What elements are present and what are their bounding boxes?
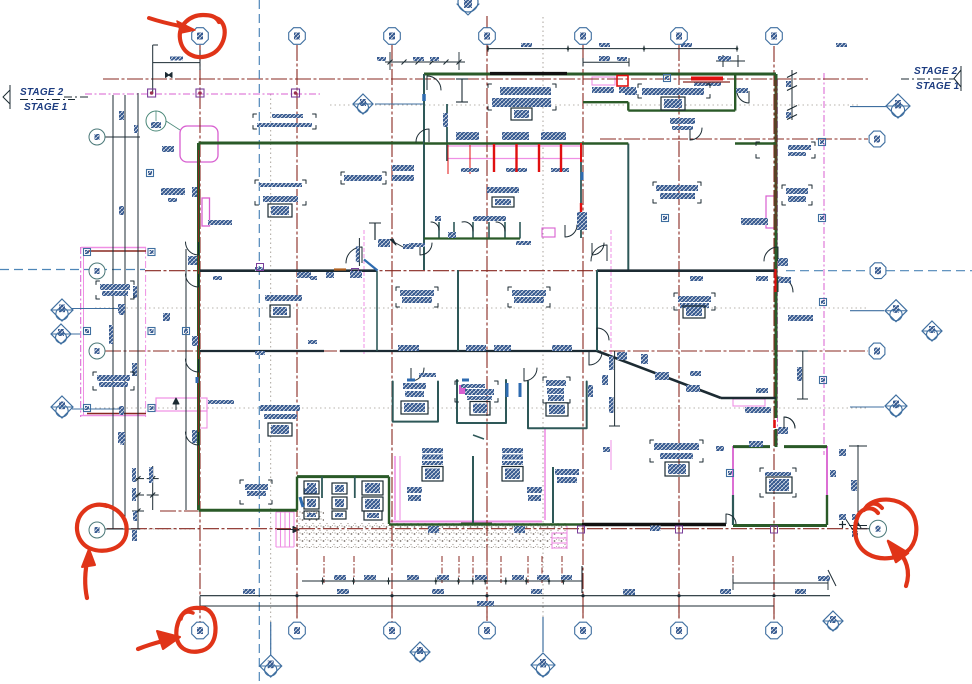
svg-text:STAGE 2: STAGE 2 bbox=[20, 87, 64, 98]
svg-text:STAGE 1: STAGE 1 bbox=[916, 81, 960, 92]
svg-text:STAGE 1: STAGE 1 bbox=[24, 102, 68, 113]
svg-text:STAGE 2: STAGE 2 bbox=[914, 66, 958, 77]
